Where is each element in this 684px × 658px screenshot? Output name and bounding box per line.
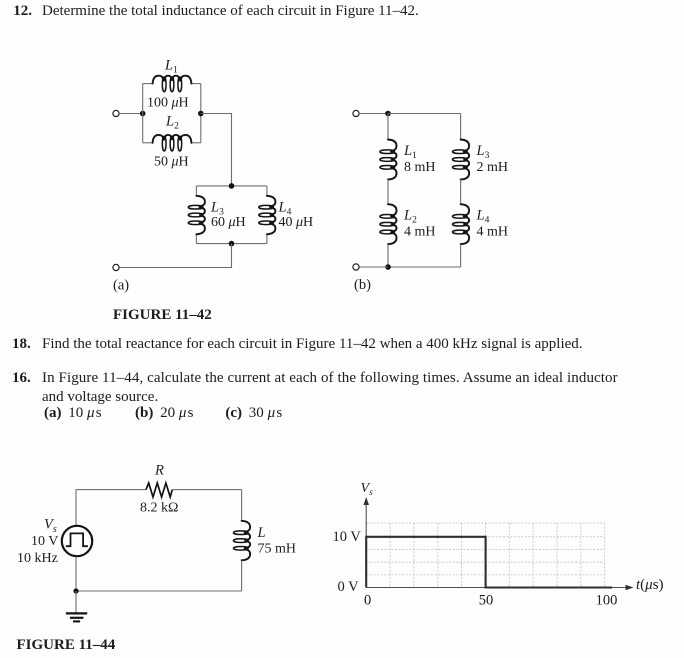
svg-text:40 μH: 40 μH	[279, 215, 314, 230]
svg-text:(a): (a)	[113, 277, 129, 293]
problem 16 statement	[12, 370, 31, 387]
wire: (b) bottom output lead	[359, 266, 388, 268]
svg-text:L2: L2	[403, 207, 417, 225]
wire: (a) L3 stubs	[195, 186, 197, 196]
axis: time axis with arrow	[366, 577, 663, 593]
problem 12 statement	[13, 3, 32, 20]
wire: (a) link to second parallel pair	[201, 114, 232, 186]
svg-text:R: R	[154, 463, 164, 479]
inductor L4 4mH (b)	[452, 204, 508, 244]
svg-text:L1: L1	[164, 58, 178, 76]
inductor L4 40uH (a)	[259, 196, 313, 235]
wire: fig11-44 right branch lower stub	[241, 560, 243, 591]
node: (b) top junction	[385, 111, 391, 117]
wire: fig11-44 top left segment	[76, 489, 146, 491]
caption FIGURE 11-42	[113, 307, 212, 324]
wire: source bottom lead	[75, 557, 77, 591]
svg-text:L: L	[257, 525, 266, 541]
wire: (a) first parallel box right side	[200, 84, 202, 143]
wire: (b) top side	[388, 113, 461, 115]
svg-text:60 μH: 60 μH	[211, 215, 246, 230]
node: (a) left junction	[140, 111, 146, 117]
terminal: circuit (a) bottom	[113, 264, 119, 270]
terminal: circuit (b) bottom	[353, 264, 359, 270]
wire: (b) right branch upper stub	[460, 114, 462, 140]
node: (a) second box bottom junction	[229, 241, 235, 247]
wire: (b) left branch lower stub	[387, 244, 389, 267]
svg-text:(b): (b)	[354, 277, 371, 293]
svg-text:10 V: 10 V	[31, 534, 58, 549]
resistor R 8.2k	[140, 463, 178, 516]
svg-text:Vs: Vs	[361, 481, 374, 498]
node: (b) bottom junction	[385, 264, 391, 270]
wire: (b) top input lead	[359, 113, 388, 115]
inductor L3 60uH (a)	[188, 196, 245, 235]
wire: fig11-44 right branch upper stub	[241, 490, 243, 521]
svg-text:0 V: 0 V	[338, 579, 360, 595]
svg-text:Vs: Vs	[44, 517, 57, 536]
svg-text:10 V: 10 V	[333, 529, 362, 545]
wire: (a) first parallel box left side	[142, 84, 144, 143]
problem 16 sub-items	[44, 405, 102, 422]
svg-text:8 mH: 8 mH	[404, 160, 436, 175]
svg-text:100 μH: 100 μH	[147, 96, 189, 111]
svg-text:L3: L3	[476, 143, 490, 161]
svg-text:4 mH: 4 mH	[477, 224, 509, 239]
wire: (a) top branch leads	[143, 83, 154, 85]
source Vs 10V 10kHz square-wave	[17, 517, 92, 567]
svg-text:L2: L2	[165, 114, 179, 132]
wire: (a) bottom branch leads	[143, 142, 154, 144]
terminal: circuit (a) top input	[113, 110, 119, 116]
caption FIGURE 11-44	[17, 637, 116, 654]
node: fig11-44 ground junction	[73, 588, 78, 593]
svg-text:0: 0	[364, 593, 371, 609]
node: (a) second box top junction	[229, 183, 235, 189]
wire: (b) bottom side	[388, 266, 461, 268]
wire: (a) return lead to bottom terminal	[119, 244, 231, 268]
svg-text:L4: L4	[476, 207, 490, 225]
wire: fig11-44 bottom side	[76, 590, 242, 592]
wire: (a) second box top side	[196, 185, 267, 187]
terminal: circuit (b) top input	[353, 110, 359, 116]
svg-text:4 mH: 4 mH	[404, 224, 436, 239]
inductor L 75mH	[233, 521, 296, 561]
inductor L2 50uH (a)	[153, 114, 192, 170]
wire: (b) left branch upper stub	[387, 114, 389, 140]
wire: fig11-44 top right segment	[172, 489, 241, 491]
problem 18 statement	[12, 336, 31, 353]
wire: source top lead	[75, 490, 77, 526]
svg-text:10 kHz: 10 kHz	[17, 551, 58, 566]
axis: Vs vertical axis with arrow	[361, 481, 374, 588]
inductor L1 8mH (b)	[380, 140, 436, 180]
svg-text:50: 50	[479, 593, 494, 609]
wire: (b) right branch middle stub	[460, 180, 462, 205]
node: (a) right junction	[198, 111, 204, 117]
inductor L1 100uH (a)	[147, 58, 191, 111]
wire: (a) second box bottom side	[196, 243, 267, 245]
svg-text:2 mH: 2 mH	[477, 160, 509, 175]
svg-text:75 mH: 75 mH	[258, 541, 297, 556]
grid: waveform graph gridlines	[366, 523, 605, 588]
wire: (a) input lead	[119, 113, 142, 115]
svg-text:8.2 kΩ: 8.2 kΩ	[140, 501, 178, 516]
inductor L3 2mH (b)	[452, 140, 508, 180]
waveform: 10V pulse 0-50us	[366, 537, 612, 588]
svg-text:50 μH: 50 μH	[154, 155, 189, 170]
svg-text:t(μs): t(μs)	[636, 577, 664, 593]
wire: (b) left branch middle stub	[387, 180, 389, 205]
svg-text:100: 100	[596, 593, 618, 609]
inductor L2 4mH (b)	[380, 204, 436, 244]
ground	[66, 613, 87, 621]
wire: ground stub	[75, 591, 77, 613]
svg-text:L1: L1	[403, 143, 417, 161]
wire: (a) L4 stubs	[266, 186, 268, 196]
wire: (b) right branch lower stub	[460, 244, 462, 267]
